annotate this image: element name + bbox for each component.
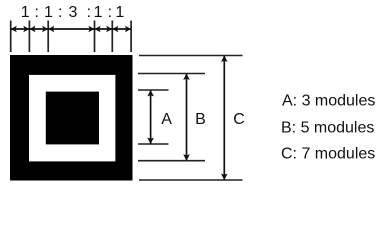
- horizontal dimension arrow segment 2: [29, 26, 48, 32]
- horizontal dimension arrow segment 1: [11, 26, 30, 32]
- svg-text::: :: [58, 4, 62, 21]
- extension line A bottom: [138, 143, 169, 145]
- inner black square: [46, 92, 99, 145]
- vertical dimension arrow A: [147, 90, 154, 144]
- outer black square: [10, 55, 133, 181]
- svg-text::: :: [34, 4, 38, 21]
- svg-text:1: 1: [94, 4, 103, 21]
- tick line 2: [28, 21, 30, 53]
- horizontal dimension arrow segment 4: [95, 26, 113, 32]
- horizontal dimension arrow segment 3: [48, 26, 94, 32]
- svg-text::: :: [87, 4, 91, 21]
- vertical dimension arrow C: [221, 56, 228, 181]
- extension line C top: [139, 55, 243, 57]
- svg-text:A: A: [161, 111, 172, 128]
- extension line A top: [138, 89, 169, 91]
- svg-text:1: 1: [44, 4, 53, 21]
- svg-text:1: 1: [21, 4, 30, 21]
- tick line 4: [94, 21, 96, 53]
- extension line C bottom: [139, 179, 243, 181]
- svg-text:1: 1: [115, 4, 124, 21]
- tick line 3: [47, 21, 49, 53]
- tick line 1: [10, 21, 12, 53]
- svg-text:3: 3: [69, 4, 78, 21]
- vertical dimension arrow B: [183, 74, 190, 161]
- tick line 5: [111, 21, 113, 53]
- horizontal dimension arrow segment 5: [112, 26, 131, 32]
- svg-text:B: 5 modules: B: 5 modules: [281, 120, 374, 137]
- tick line 6: [130, 21, 132, 53]
- svg-text:C: C: [233, 111, 245, 128]
- svg-text:C: 7 modules: C: 7 modules: [281, 146, 375, 163]
- extension line B top: [138, 73, 205, 75]
- svg-text:A: 3 modules: A: 3 modules: [282, 92, 375, 109]
- white ring square: [29, 75, 115, 161]
- ratio text 1:1:3:1:1: [21, 4, 125, 21]
- svg-text::: :: [108, 4, 112, 21]
- extension line B bottom: [138, 160, 205, 162]
- svg-text:B: B: [195, 111, 206, 128]
